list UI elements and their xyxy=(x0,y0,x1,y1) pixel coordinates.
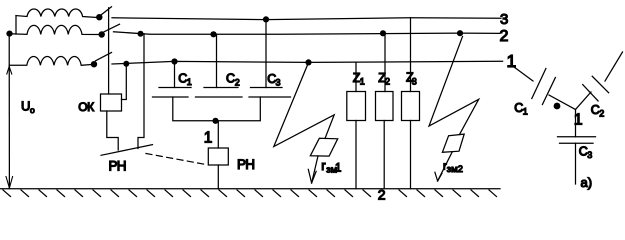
impedance Z3 xyxy=(410,18,412,92)
wire lightning fault 2 zigzag xyxy=(429,37,479,135)
svg-text:ОК: ОК xyxy=(78,100,94,114)
svg-text:1: 1 xyxy=(335,163,341,175)
wire diagram a) phase 2 lead xyxy=(605,52,623,81)
svg-text:1: 1 xyxy=(187,77,192,87)
node fault 2 arrowhead xyxy=(435,172,442,181)
svg-text:2: 2 xyxy=(599,109,604,119)
ground earth line xyxy=(0,188,500,190)
node neutral dot xyxy=(212,118,218,124)
wire C2 to neutral xyxy=(576,92,592,110)
capacitor bottom plate C2 xyxy=(196,96,243,98)
wire PH box to ground xyxy=(217,165,219,189)
node fault 1 arrowhead xyxy=(308,169,316,183)
svg-text:3: 3 xyxy=(500,11,508,28)
wire fault 2 arrow shaft xyxy=(438,152,452,181)
wire neutral down to C3 xyxy=(575,110,577,137)
ground hatching xyxy=(3,190,497,197)
wire capacitor bank bottom bus xyxy=(173,97,260,121)
node U0 lower arrowhead xyxy=(6,177,13,189)
switch blade PH contact 1 xyxy=(101,145,153,156)
node switch pivot dot row1 xyxy=(96,14,102,20)
svg-text:3: 3 xyxy=(587,150,592,160)
capacitor bottom plate C1 xyxy=(153,96,189,98)
node switch pivot dot row2 xyxy=(99,31,105,37)
svg-text:зм2: зм2 xyxy=(447,164,463,175)
svg-text:РН: РН xyxy=(109,159,126,174)
wire diagram a) phase 1 lead xyxy=(514,67,533,81)
wire U0 dimension vertical line xyxy=(8,34,10,189)
capacitor bottom plate C3 xyxy=(249,96,291,98)
svg-text:а): а) xyxy=(581,175,593,190)
node dot diagram a xyxy=(554,103,561,110)
capacitor C3 (diagram a) xyxy=(558,137,596,143)
node fault 1 parallelogram xyxy=(310,138,337,156)
node dot line2 lightning 2 xyxy=(457,30,463,36)
svg-text:o: o xyxy=(30,105,35,115)
node dot line2 to Z2 xyxy=(380,30,386,36)
wire bus line 3 xyxy=(112,18,501,20)
svg-text:1: 1 xyxy=(523,107,528,117)
resistor OK box xyxy=(101,94,122,111)
inductor L3 (phase 1 coil) xyxy=(9,57,91,66)
wire vertical feed to OK coil xyxy=(108,8,110,94)
switch blade Q1 xyxy=(100,7,111,16)
wire C1 to neutral xyxy=(549,95,576,110)
node dot line1 to OK stub xyxy=(123,61,129,67)
svg-text:1: 1 xyxy=(204,130,213,147)
switch blade Q3 xyxy=(96,53,112,61)
svg-text:3: 3 xyxy=(412,77,417,87)
capacitor C1 plates (diagram a) xyxy=(532,69,556,105)
svg-text:2: 2 xyxy=(500,28,509,45)
node dot line1 lightning 1 xyxy=(305,59,311,65)
node dot line2 to C2 xyxy=(210,31,216,37)
wire fault 1 arrow shaft xyxy=(312,156,318,183)
node dot line3 to C3 xyxy=(263,16,269,22)
svg-text:1: 1 xyxy=(360,77,365,87)
wire left bus upper vertical xyxy=(15,16,17,34)
svg-text:С: С xyxy=(226,72,235,86)
capacitor C1 top plate xyxy=(159,87,191,89)
node left bus junction dot xyxy=(6,30,12,36)
impedance Z2 xyxy=(384,33,386,92)
node dot line2 to PH contact xyxy=(138,31,144,37)
inductor L1 (phase 3 coil) xyxy=(16,9,97,17)
svg-text:2: 2 xyxy=(385,77,390,87)
wire bus line 1 xyxy=(112,61,503,64)
wire lightning fault 1 zigzag xyxy=(274,63,334,147)
wire dashed mechanical link xyxy=(146,154,207,165)
capacitor C3 top plate xyxy=(251,87,283,89)
node switch pivot dot row3 xyxy=(91,61,97,67)
wire C1 vertical xyxy=(174,62,176,88)
svg-text:3: 3 xyxy=(276,77,281,87)
capacitor C2 plates (diagram a) xyxy=(583,76,609,101)
wire C3 vertical xyxy=(265,19,267,87)
impedance Z1 xyxy=(355,62,357,91)
svg-text:2: 2 xyxy=(235,77,240,87)
inductor L2 (phase 2 coil) xyxy=(10,25,99,34)
node U0 upper arrowhead xyxy=(7,67,12,75)
switch blade Q2 xyxy=(104,24,120,32)
capacitor C2 top plate xyxy=(204,87,238,89)
wire C2 vertical xyxy=(216,34,218,87)
wire OK box lower hook (fixed contact) xyxy=(107,111,118,150)
relay PH box xyxy=(208,148,228,165)
svg-text:РН: РН xyxy=(237,157,254,172)
node fault 2 parallelogram xyxy=(442,134,464,152)
wire vertical line2 down to PH contact xyxy=(138,34,144,149)
wire neutral vertical to PH box xyxy=(217,121,219,148)
wire bus line 2 xyxy=(114,32,501,34)
node dot line1 to C1 xyxy=(171,58,177,64)
svg-text:2: 2 xyxy=(378,186,386,202)
svg-text:U: U xyxy=(21,99,30,114)
wire C3 bottom lead xyxy=(575,143,577,184)
wire stub from line1 to OK box xyxy=(122,64,127,100)
